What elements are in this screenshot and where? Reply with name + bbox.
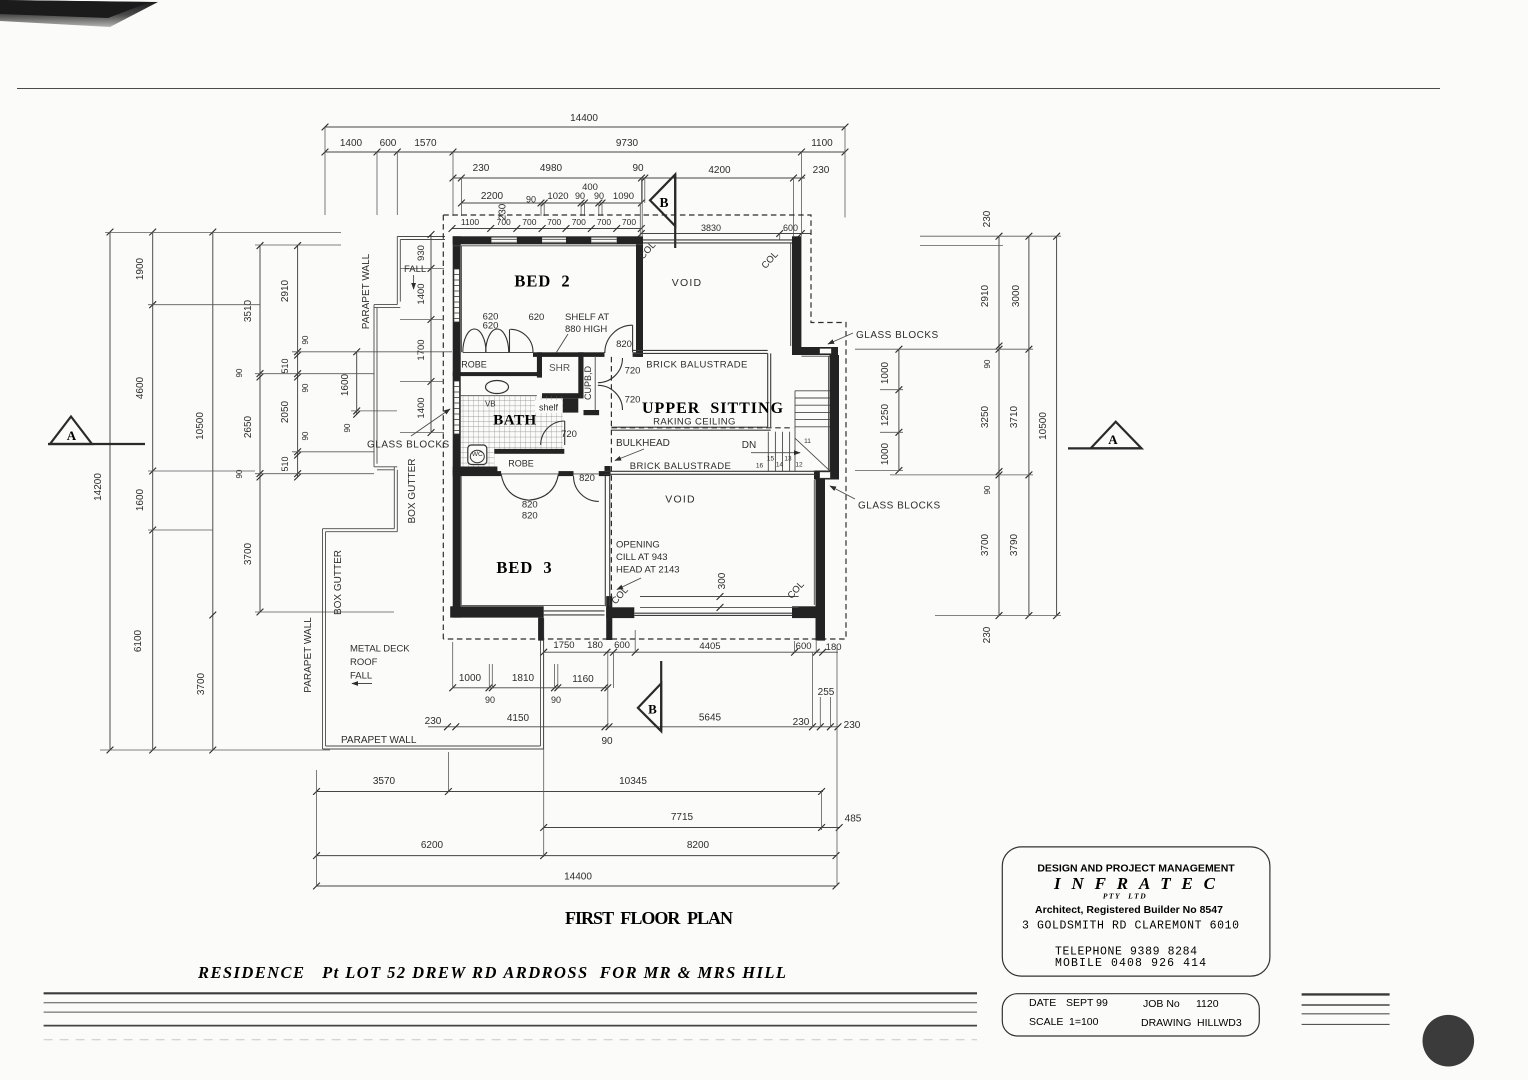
- svg-text:90: 90: [343, 423, 352, 432]
- svg-text:230: 230: [473, 163, 490, 174]
- svg-text:820: 820: [616, 339, 632, 350]
- svg-text:510: 510: [280, 456, 290, 471]
- svg-text:SCALE: SCALE: [1029, 1016, 1063, 1028]
- labels 620: [483, 312, 545, 332]
- labels COL rotated: [610, 240, 807, 607]
- svg-text:4150: 4150: [507, 713, 530, 724]
- svg-text:700: 700: [547, 217, 561, 227]
- wall: BED2 east wall: [636, 244, 643, 357]
- label GLASS BLOCKS right-upper with arrow: [828, 330, 939, 344]
- svg-text:2050: 2050: [280, 400, 291, 423]
- svg-text:3700: 3700: [196, 672, 207, 695]
- svg-text:90: 90: [601, 736, 613, 747]
- svg-text:FALL: FALL: [350, 671, 372, 682]
- svg-text:930: 930: [416, 245, 427, 261]
- wall: void south-east column: [792, 606, 825, 618]
- svg-text:90: 90: [575, 191, 585, 201]
- svg-text:620: 620: [528, 312, 544, 323]
- svg-text:10345: 10345: [619, 776, 647, 787]
- svg-text:5645: 5645: [699, 713, 722, 724]
- svg-text:90: 90: [235, 469, 244, 478]
- svg-text:2200: 2200: [481, 191, 504, 202]
- svg-text:180: 180: [587, 640, 603, 651]
- svg-text:300: 300: [717, 572, 728, 589]
- labels 720: [561, 366, 640, 441]
- svg-text:12: 12: [795, 462, 803, 469]
- svg-text:13: 13: [784, 456, 792, 463]
- dashed roof overhang boundary: [443, 215, 846, 639]
- svg-text:700: 700: [572, 217, 586, 227]
- wall: BED3 south wall: [450, 606, 544, 617]
- wall: east wall lower: [816, 480, 826, 641]
- svg-text:ROOF: ROOF: [350, 657, 378, 668]
- svg-text:BOX GUTTER: BOX GUTTER: [407, 458, 418, 523]
- svg-text:UPPER SITTING: UPPER SITTING: [642, 400, 784, 417]
- parapet wall / box gutter outline: [323, 237, 544, 750]
- bottom rule lines left group: [44, 993, 977, 1040]
- svg-text:485: 485: [845, 814, 862, 825]
- svg-text:3000: 3000: [1011, 284, 1022, 307]
- svg-text:7715: 7715: [671, 812, 694, 823]
- stairs upper flight treads: [795, 391, 830, 471]
- svg-text:90: 90: [301, 335, 310, 344]
- svg-text:90: 90: [632, 163, 644, 174]
- svg-text:1400: 1400: [340, 138, 363, 149]
- svg-text:6100: 6100: [133, 629, 144, 652]
- svg-text:880 HIGH: 880 HIGH: [565, 324, 607, 335]
- BED3 south window: [544, 611, 605, 615]
- robe2 double doors 820/820: [501, 474, 558, 500]
- svg-text:8200: 8200: [687, 840, 710, 851]
- svg-text:SHR: SHR: [549, 363, 570, 374]
- svg-text:BED 2: BED 2: [514, 272, 570, 291]
- svg-text:2910: 2910: [280, 279, 291, 302]
- svg-text:PARAPET WALL: PARAPET WALL: [303, 617, 314, 693]
- svg-text:600: 600: [796, 641, 812, 652]
- left chain 1600/90: [340, 348, 360, 432]
- svg-text:CILL AT 943: CILL AT 943: [616, 552, 668, 563]
- svg-text:600: 600: [380, 138, 397, 149]
- svg-text:1250: 1250: [880, 403, 891, 426]
- section marker B (top): [650, 174, 675, 248]
- svg-text:14200: 14200: [93, 473, 104, 501]
- svg-text:255: 255: [818, 687, 835, 698]
- dashed bulkhead line: [611, 427, 793, 429]
- BED2 entry door 820: [605, 325, 633, 353]
- wall: top-right return wall with glass blocks: [792, 347, 838, 355]
- svg-text:PARAPET WALL: PARAPET WALL: [341, 735, 417, 746]
- svg-text:180: 180: [826, 642, 842, 653]
- label METAL DECK ROOF FALL with arrow: [350, 644, 410, 684]
- label SHELF AT 880 HIGH with leader: [556, 312, 609, 353]
- svg-text:BED 3: BED 3: [496, 558, 552, 577]
- svg-text:BRICK BALUSTRADE: BRICK BALUSTRADE: [630, 461, 731, 472]
- svg-text:DESIGN AND PROJECT MANAGEMENT: DESIGN AND PROJECT MANAGEMENT: [1037, 863, 1235, 875]
- svg-text:14400: 14400: [564, 872, 592, 883]
- svg-text:10500: 10500: [1038, 412, 1049, 440]
- svg-text:1900: 1900: [135, 257, 146, 280]
- svg-text:VOID: VOID: [665, 494, 695, 506]
- svg-text:4200: 4200: [708, 165, 731, 176]
- svg-text:14: 14: [776, 462, 784, 469]
- robe1 double doors: [463, 329, 533, 352]
- label OPENING CILL/HEAD with leader: [616, 540, 680, 590]
- svg-text:3700: 3700: [980, 533, 991, 556]
- svg-text:WC: WC: [472, 451, 483, 458]
- svg-text:MOBILE 0408 926 414: MOBILE 0408 926 414: [1055, 957, 1206, 970]
- wall: shower west wall: [537, 352, 542, 377]
- svg-text:METAL DECK: METAL DECK: [350, 644, 410, 655]
- section marker A (right): [1068, 422, 1142, 449]
- svg-text:B: B: [648, 702, 657, 717]
- 300 opening cill lines with ticks: [640, 572, 799, 611]
- svg-text:1000: 1000: [459, 673, 482, 684]
- svg-text:SHELF AT: SHELF AT: [565, 312, 609, 323]
- wall: east wall upper (VOID): [792, 236, 801, 347]
- svg-text:1570: 1570: [414, 138, 437, 149]
- svg-text:ROBE: ROBE: [461, 360, 487, 370]
- DN arrow: [742, 440, 800, 453]
- wc fixture: [468, 445, 487, 465]
- inner face lines: [461, 243, 829, 606]
- svg-text:230: 230: [982, 626, 993, 643]
- svg-text:BOX GUTTER: BOX GUTTER: [333, 550, 344, 615]
- svg-text:Architect, Registered Builder: Architect, Registered Builder No 8547: [1035, 904, 1223, 916]
- svg-text:600: 600: [614, 640, 630, 651]
- svg-text:1090: 1090: [613, 191, 634, 202]
- svg-text:9730: 9730: [616, 138, 639, 149]
- dashed opening line: [610, 357, 612, 639]
- svg-text:1100: 1100: [811, 138, 833, 149]
- right chain 230/2910/90/3250/90/3700/230: [980, 210, 1002, 643]
- wall: hall south wall segments: [453, 471, 501, 476]
- svg-text:15: 15: [767, 456, 775, 463]
- right extension lines: [855, 236, 1061, 615]
- label FALL + arrow: [404, 264, 426, 289]
- label BULKHEAD with arrow: [615, 438, 670, 461]
- left dimension line 14200: [93, 229, 113, 754]
- wall: shower east wall: [578, 352, 583, 398]
- bath door 720: [541, 421, 565, 445]
- svg-text:700: 700: [522, 217, 536, 227]
- svg-text:1000: 1000: [880, 442, 891, 465]
- bottom extension lines: [317, 618, 838, 886]
- svg-text:14400: 14400: [570, 113, 598, 124]
- right line 10500: [1038, 233, 1060, 619]
- svg-text:3250: 3250: [980, 405, 991, 428]
- svg-text:3700: 3700: [243, 542, 254, 565]
- svg-text:RESIDENCE Pt LOT 52 DREW RD: RESIDENCE Pt LOT 52 DREW RD ARDROSS FOR …: [197, 963, 786, 982]
- svg-text:3 GOLDSMITH RD CLAREMONT 6010: 3 GOLDSMITH RD CLAREMONT 6010: [1022, 920, 1239, 933]
- svg-text:BULKHEAD: BULKHEAD: [616, 438, 670, 449]
- svg-text:1160: 1160: [572, 674, 594, 685]
- wall: BED3 south stub: [538, 618, 544, 641]
- wall: bottom centre column stub: [606, 596, 612, 640]
- svg-text:1020: 1020: [547, 191, 568, 202]
- svg-text:620: 620: [483, 321, 499, 332]
- labels VB / shelf: [485, 400, 559, 413]
- extension lines top: [325, 127, 845, 240]
- dimension chain: overall width 14400 (top): [322, 113, 849, 130]
- VOID south window: [634, 613, 792, 615]
- svg-text:90: 90: [983, 359, 992, 368]
- svg-text:3790: 3790: [1009, 533, 1020, 556]
- bottom chain 7715/485: [540, 812, 861, 831]
- svg-text:230: 230: [813, 165, 830, 176]
- svg-text:230: 230: [425, 716, 442, 727]
- left extension lines: [100, 233, 452, 751]
- svg-text:820: 820: [522, 511, 538, 522]
- svg-text:820: 820: [579, 473, 595, 484]
- inner face line bed2: [453, 245, 636, 247]
- bottom chain 6200/8200: [313, 840, 839, 859]
- svg-text:90: 90: [551, 695, 561, 705]
- svg-text:11: 11: [804, 438, 811, 445]
- wall: robe1 south wall: [453, 372, 538, 376]
- scan artifact: black corner wedge top-left: [0, 0, 158, 27]
- section marker A (left): [48, 417, 145, 445]
- svg-text:230: 230: [844, 720, 861, 731]
- wall: BED2 south wall segments: [533, 352, 605, 357]
- svg-text:1100: 1100: [461, 217, 480, 227]
- stairs winder treads: [768, 432, 829, 472]
- svg-text:OPENING: OPENING: [616, 540, 660, 551]
- hall door 820: [574, 476, 599, 501]
- svg-text:BRICK BALUSTRADE: BRICK BALUSTRADE: [646, 360, 747, 371]
- svg-text:CUPB,D: CUPB,D: [583, 366, 593, 401]
- page top rule line: [17, 88, 1440, 90]
- wall: BED3 east wall top block: [605, 466, 611, 476]
- brick balustrade lower: [605, 471, 816, 474]
- svg-text:FIRST FLOOR PLAN: FIRST FLOOR PLAN: [565, 908, 733, 928]
- svg-text:90: 90: [594, 191, 604, 201]
- bottom chain 1750/180/600/4405/600/180: [540, 640, 841, 656]
- dimension chain: 230/4980/90/4200/230: [450, 163, 830, 181]
- svg-text:DRAWING: DRAWING: [1141, 1017, 1191, 1029]
- svg-text:230: 230: [793, 717, 810, 728]
- svg-text:3510: 3510: [243, 299, 254, 322]
- svg-text:700: 700: [597, 217, 611, 227]
- svg-text:FALL: FALL: [404, 264, 426, 275]
- svg-text:10500: 10500: [195, 412, 206, 440]
- svg-text:720: 720: [561, 429, 577, 440]
- wall: shower south wall: [542, 393, 584, 398]
- right inner chain 1000/1250/1000: [880, 346, 902, 474]
- svg-text:HILLWD3: HILLWD3: [1197, 1017, 1242, 1029]
- right chain 3000/3710/3790: [1009, 233, 1032, 619]
- left chain 3510/90/2650/90/3700: [235, 242, 263, 615]
- svg-text:820: 820: [522, 500, 538, 511]
- svg-text:1000: 1000: [880, 361, 891, 384]
- svg-text:1700: 1700: [416, 339, 427, 360]
- svg-text:1400: 1400: [416, 397, 427, 418]
- svg-text:ROBE: ROBE: [508, 459, 534, 469]
- left chain 2910/510/2050/510 with 90s: [280, 242, 310, 480]
- svg-text:90: 90: [983, 485, 992, 494]
- svg-text:BATH: BATH: [493, 413, 536, 429]
- svg-text:1600: 1600: [135, 488, 146, 511]
- section marker B (bottom): [638, 661, 661, 731]
- bottom chain 230/4150/90/5645/230/255/230: [425, 687, 861, 747]
- bottom rule lines right group: [1302, 994, 1390, 1024]
- svg-text:VB: VB: [485, 400, 496, 409]
- svg-text:700: 700: [622, 217, 636, 227]
- wall: robe2 north wall: [494, 449, 564, 454]
- svg-text:A: A: [67, 428, 77, 443]
- svg-text:DN: DN: [742, 440, 756, 451]
- BED3 east opening lines: [605, 476, 609, 606]
- svg-text:RAKING CEILING: RAKING CEILING: [653, 417, 736, 428]
- brick balustrade upper sitting: [611, 350, 770, 430]
- bottom chain 14400: [313, 872, 839, 890]
- svg-text:600: 600: [783, 223, 798, 233]
- labels 820: [522, 339, 632, 522]
- svg-text:90: 90: [235, 368, 244, 377]
- svg-text:230: 230: [498, 203, 509, 220]
- wall: west external wall with glass block windows: [453, 236, 461, 617]
- wall: cupboard south wall: [584, 410, 600, 415]
- bottom chain 1000/1810/1160: [449, 673, 611, 705]
- wall: bath/cupboard chunk: [563, 398, 579, 412]
- svg-text:1120: 1120: [1196, 998, 1219, 1010]
- svg-text:510: 510: [280, 358, 290, 373]
- svg-text:DATE: DATE: [1029, 997, 1056, 1009]
- svg-text:4405: 4405: [699, 641, 720, 652]
- left chain 1900/4600/1600/6100: [133, 229, 156, 754]
- svg-text:3830: 3830: [701, 223, 721, 233]
- label GLASS BLOCKS right-lower with arrow: [830, 486, 941, 512]
- svg-text:shelf: shelf: [539, 403, 559, 413]
- svg-text:A: A: [1108, 432, 1118, 447]
- svg-text:2910: 2910: [980, 284, 991, 307]
- dimension chain: 3830/600: [638, 223, 811, 237]
- wall: east wall beside stairs: [830, 355, 840, 471]
- title block INFRATEC: [1002, 847, 1270, 976]
- svg-text:PARAPET WALL: PARAPET WALL: [361, 253, 372, 329]
- svg-text:VOID: VOID: [672, 277, 702, 289]
- balustrade top of VOID: [643, 240, 792, 243]
- svg-text:JOB No: JOB No: [1143, 998, 1180, 1010]
- robe2 + hall door sills: [501, 473, 599, 475]
- svg-text:GLASS BLOCKS: GLASS BLOCKS: [858, 501, 941, 512]
- svg-text:90: 90: [301, 383, 310, 392]
- svg-text:720: 720: [625, 395, 641, 406]
- cupboard doors 720/720: [598, 358, 623, 410]
- svg-text:720: 720: [625, 366, 641, 377]
- dimension chain: 1400/600/1570/9730/1100: [322, 138, 849, 155]
- svg-text:GLASS BLOCKS: GLASS BLOCKS: [367, 440, 450, 451]
- svg-text:4600: 4600: [135, 376, 146, 399]
- stair numbers: [756, 438, 811, 470]
- dimension chain: 2200/90/1020/90/400/90/1090: [458, 182, 645, 206]
- svg-text:HEAD AT 2143: HEAD AT 2143: [616, 565, 680, 576]
- chain 930/1400/1700/1400: [400, 231, 444, 436]
- title block date/job: [1002, 994, 1259, 1036]
- svg-text:1600: 1600: [340, 373, 351, 396]
- bottom chain 3570/10345: [313, 776, 825, 795]
- svg-text:3710: 3710: [1009, 405, 1020, 428]
- svg-text:1750: 1750: [553, 640, 574, 651]
- svg-text:1=100: 1=100: [1069, 1016, 1099, 1028]
- svg-text:PTY LTD: PTY LTD: [1103, 892, 1147, 901]
- wall: bottom centre column T: [606, 607, 634, 618]
- svg-text:1810: 1810: [512, 673, 535, 684]
- svg-text:SEPT 99: SEPT 99: [1066, 997, 1108, 1009]
- wall: corner return with glass blocks (lower): [814, 471, 839, 480]
- svg-text:90: 90: [526, 195, 536, 205]
- svg-text:16: 16: [756, 463, 764, 470]
- scan artifact: punch hole circle: [1423, 1015, 1475, 1067]
- svg-text:4980: 4980: [540, 163, 563, 174]
- svg-text:GLASS BLOCKS: GLASS BLOCKS: [856, 330, 939, 341]
- svg-text:3570: 3570: [373, 776, 396, 787]
- svg-text:90: 90: [301, 431, 310, 440]
- label GLASS BLOCKS left with arrow: [367, 409, 450, 451]
- dimension chain: 1100 + 700x6 (window modules): [449, 217, 645, 232]
- svg-text:B: B: [659, 195, 668, 210]
- vanity front edge: [461, 395, 537, 397]
- bath floor tiles: [461, 396, 563, 466]
- basin ellipse: [486, 381, 509, 394]
- svg-text:230: 230: [982, 210, 993, 227]
- svg-text:2650: 2650: [243, 415, 254, 438]
- wall: wc south wall: [453, 467, 498, 473]
- svg-text:6200: 6200: [421, 840, 444, 851]
- robe1 door sill: [463, 352, 533, 354]
- svg-text:1400: 1400: [416, 283, 427, 304]
- cupboard east line: [594, 356, 596, 410]
- wall: BED2 top external wall with window modules: [453, 236, 643, 244]
- svg-text:90: 90: [485, 695, 495, 705]
- left chain 10500/3700: [195, 229, 216, 754]
